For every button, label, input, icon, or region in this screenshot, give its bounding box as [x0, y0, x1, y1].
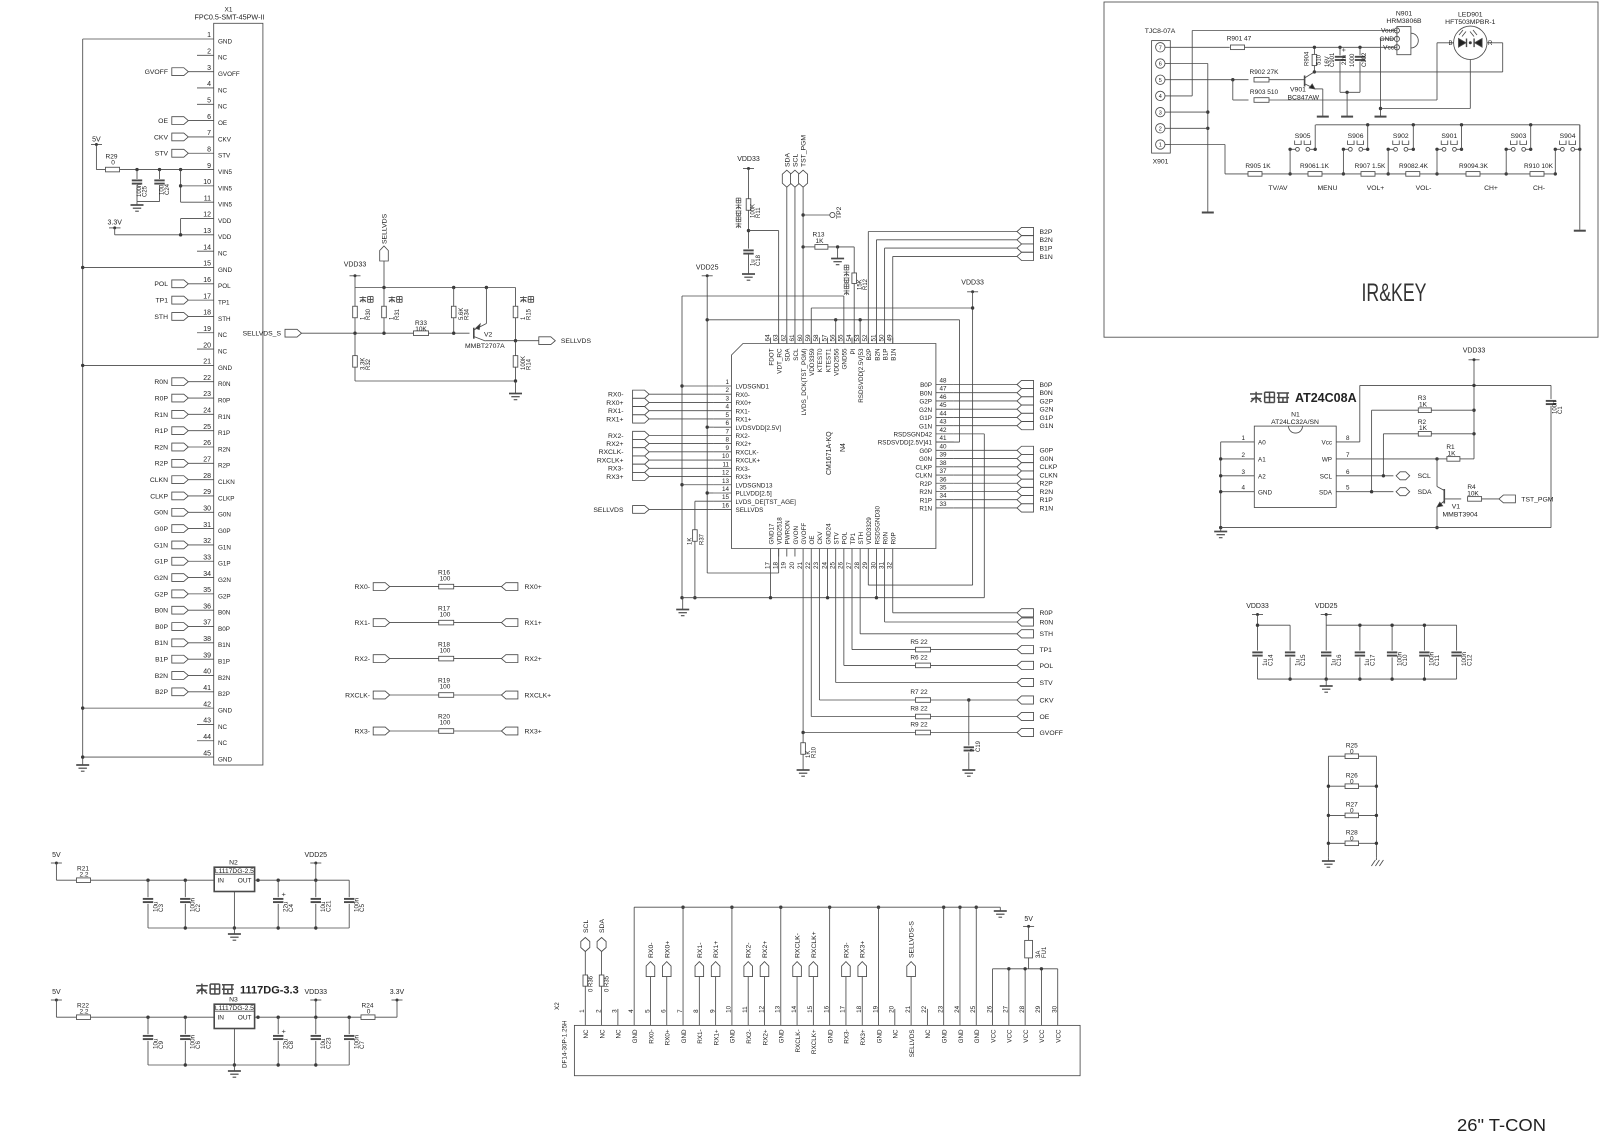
svg-text:R30: R30 — [366, 308, 372, 320]
svg-text:S902: S902 — [1393, 133, 1409, 140]
svg-text:22: 22 — [921, 1005, 928, 1013]
svg-text:1: 1 — [725, 379, 729, 386]
svg-text:0: 0 — [1350, 749, 1354, 756]
svg-text:19: 19 — [781, 562, 788, 570]
svg-text:SCL: SCL — [583, 920, 590, 933]
svg-text:GND: GND — [958, 1029, 965, 1043]
svg-text:42: 42 — [203, 701, 211, 708]
svg-text:55: 55 — [838, 334, 845, 342]
svg-text:37: 37 — [203, 620, 211, 627]
svg-text:VIN5: VIN5 — [218, 185, 232, 192]
svg-text:8: 8 — [1346, 435, 1350, 442]
svg-text:43: 43 — [940, 419, 948, 426]
svg-text:C7: C7 — [359, 1040, 366, 1049]
svg-text:X1: X1 — [225, 7, 233, 14]
svg-text:RX1-: RX1- — [736, 408, 750, 415]
svg-text:B0N: B0N — [920, 390, 933, 397]
svg-text:62: 62 — [781, 334, 788, 342]
svg-text:1K: 1K — [816, 238, 825, 245]
svg-text:13: 13 — [722, 478, 730, 485]
svg-text:CH-: CH- — [1533, 185, 1545, 192]
svg-text:S906: S906 — [1348, 133, 1364, 140]
svg-text:VCC: VCC — [1023, 1029, 1030, 1043]
svg-text:1K: 1K — [1448, 450, 1457, 457]
svg-text:0: 0 — [1350, 836, 1354, 843]
svg-text:CKV: CKV — [154, 134, 168, 141]
svg-text:0: 0 — [111, 160, 115, 167]
svg-text:60: 60 — [797, 334, 804, 342]
svg-text:5V: 5V — [52, 989, 61, 996]
svg-text:GND: GND — [730, 1029, 737, 1043]
svg-text:RX0+: RX0+ — [525, 584, 542, 591]
svg-text:100: 100 — [440, 647, 451, 654]
svg-text:38: 38 — [203, 636, 211, 643]
svg-text:RX3-: RX3- — [736, 466, 750, 473]
svg-text:11: 11 — [204, 195, 211, 202]
svg-text:C19: C19 — [976, 740, 982, 752]
svg-text:MMBT3904: MMBT3904 — [1443, 512, 1478, 519]
svg-text:49: 49 — [887, 334, 894, 342]
svg-text:RX1-: RX1- — [697, 943, 704, 959]
svg-text:44: 44 — [203, 734, 211, 741]
svg-text:PI: PI — [850, 348, 857, 354]
svg-text:C1: C1 — [1558, 406, 1564, 414]
svg-text:6: 6 — [1346, 469, 1350, 476]
svg-text:B1N: B1N — [1040, 254, 1053, 261]
svg-text:SCL: SCL — [792, 154, 799, 167]
svg-text:2: 2 — [595, 1009, 602, 1013]
svg-text:VCC: VCC — [1007, 1029, 1014, 1043]
svg-text:RSDSGND30: RSDSGND30 — [874, 506, 881, 545]
svg-text:R2P: R2P — [920, 481, 932, 488]
svg-text:GND: GND — [218, 708, 232, 715]
svg-text:C6: C6 — [195, 1040, 202, 1049]
svg-text:2: 2 — [207, 49, 211, 56]
svg-text:B2P: B2P — [155, 689, 168, 696]
svg-text:TP1: TP1 — [1040, 647, 1053, 654]
svg-text:20: 20 — [203, 342, 211, 349]
svg-text:R2P: R2P — [1040, 481, 1054, 488]
svg-text:GVOFF: GVOFF — [1040, 730, 1063, 737]
svg-text:LVDSGND13: LVDSGND13 — [736, 482, 773, 489]
svg-text:RSDSVDD[2.5V]41: RSDSVDD[2.5V]41 — [878, 440, 933, 447]
svg-text:B0N: B0N — [155, 608, 168, 615]
svg-text:42: 42 — [940, 427, 948, 434]
svg-text:R9094.3K: R9094.3K — [1459, 163, 1489, 170]
svg-text:VDD2518: VDD2518 — [776, 517, 783, 545]
svg-text:VCC: VCC — [990, 1029, 997, 1043]
svg-text:9: 9 — [725, 445, 729, 452]
svg-text:SELLVDS: SELLVDS — [561, 338, 592, 345]
svg-text:6: 6 — [1159, 62, 1162, 68]
svg-text:CLKP: CLKP — [1040, 464, 1058, 471]
svg-text:47: 47 — [940, 386, 948, 393]
svg-text:57: 57 — [821, 334, 828, 342]
svg-text:28: 28 — [1019, 1005, 1026, 1013]
svg-text:VDD33: VDD33 — [1246, 603, 1269, 610]
svg-text:RX3+: RX3+ — [860, 941, 867, 958]
svg-text:G1P: G1P — [154, 559, 168, 566]
svg-text:22: 22 — [805, 562, 812, 570]
svg-text:0: 0 — [1350, 779, 1354, 786]
svg-text:SDA: SDA — [784, 153, 791, 167]
svg-text:5: 5 — [1159, 78, 1162, 84]
svg-text:NC: NC — [583, 1029, 590, 1039]
svg-text:G2P: G2P — [154, 591, 168, 598]
svg-text:11: 11 — [742, 1006, 749, 1013]
svg-text:C14: C14 — [1267, 654, 1274, 666]
svg-text:RX3-: RX3- — [843, 943, 850, 959]
svg-text:B2P: B2P — [218, 691, 230, 698]
svg-text:R0N: R0N — [154, 379, 168, 386]
svg-text:N2: N2 — [229, 860, 238, 867]
svg-text:4: 4 — [1241, 485, 1245, 492]
svg-text:R6 22: R6 22 — [910, 655, 928, 662]
svg-text:R31: R31 — [395, 308, 401, 320]
svg-text:63: 63 — [772, 334, 779, 342]
svg-text:14: 14 — [722, 486, 730, 493]
svg-text:G0N: G0N — [919, 456, 932, 463]
svg-text:HFT503MPBR-1: HFT503MPBR-1 — [1445, 19, 1495, 26]
svg-text:R910 10K: R910 10K — [1524, 163, 1554, 170]
svg-text:12: 12 — [722, 470, 730, 477]
svg-text:5: 5 — [1346, 485, 1350, 492]
svg-text:27: 27 — [203, 457, 211, 464]
svg-text:24: 24 — [954, 1005, 961, 1013]
svg-text:R0P: R0P — [1040, 610, 1054, 617]
svg-text:12: 12 — [758, 1005, 765, 1013]
svg-text:NC: NC — [218, 251, 228, 258]
svg-text:29: 29 — [862, 562, 869, 570]
svg-text:16: 16 — [203, 277, 211, 284]
svg-text:RX1+: RX1+ — [713, 1029, 720, 1045]
svg-text:B: B — [1448, 41, 1452, 47]
svg-text:36: 36 — [940, 476, 948, 483]
svg-text:CM1671A-KQ: CM1671A-KQ — [826, 431, 833, 475]
svg-text:RX0-: RX0- — [608, 392, 624, 399]
svg-text:25: 25 — [203, 424, 211, 431]
svg-text:TST_PGM: TST_PGM — [1521, 496, 1553, 503]
svg-text:GND: GND — [218, 365, 232, 372]
svg-text:31: 31 — [878, 562, 885, 570]
svg-text:26: 26 — [203, 440, 211, 447]
svg-text:12: 12 — [203, 212, 211, 219]
svg-text:8: 8 — [725, 437, 729, 444]
svg-text:C17: C17 — [1370, 654, 1377, 666]
svg-text:34: 34 — [203, 571, 211, 578]
svg-text:NC: NC — [218, 55, 228, 62]
svg-text:R: R — [1488, 41, 1493, 47]
svg-text:GND: GND — [941, 1029, 948, 1043]
svg-text:Vcc: Vcc — [1322, 440, 1333, 447]
svg-text:43: 43 — [203, 718, 211, 725]
svg-text:5: 5 — [644, 1009, 651, 1013]
svg-text:B0P: B0P — [218, 626, 230, 633]
svg-text:G2P: G2P — [218, 593, 231, 600]
svg-text:41: 41 — [203, 685, 211, 692]
svg-text:RX2-: RX2- — [608, 433, 624, 440]
svg-text:VCC: VCC — [1039, 1029, 1046, 1043]
svg-text:G1N: G1N — [1040, 423, 1054, 430]
svg-text:RXCLK+: RXCLK+ — [597, 457, 624, 464]
svg-text:0: 0 — [1350, 808, 1354, 815]
svg-text:GVOFF: GVOFF — [801, 523, 808, 545]
svg-text:8: 8 — [207, 146, 211, 153]
svg-text:RX0+: RX0+ — [665, 1029, 672, 1045]
svg-text:CLKN: CLKN — [1040, 472, 1058, 479]
svg-text:21: 21 — [905, 1005, 912, 1013]
svg-text:19: 19 — [872, 1005, 879, 1013]
svg-text:GVOFF: GVOFF — [145, 69, 168, 76]
svg-text:7: 7 — [677, 1009, 684, 1013]
svg-text:17: 17 — [203, 293, 211, 300]
svg-text:58: 58 — [813, 334, 820, 342]
svg-text:28: 28 — [854, 562, 861, 570]
svg-text:16: 16 — [722, 502, 730, 509]
svg-text:+: + — [1341, 48, 1348, 52]
svg-text:G2N: G2N — [154, 575, 168, 582]
svg-text:VDD2556: VDD2556 — [834, 348, 841, 376]
svg-text:44: 44 — [940, 410, 948, 417]
svg-text:R9082.4K: R9082.4K — [1399, 163, 1429, 170]
svg-text:GND: GND — [218, 38, 232, 45]
svg-text:5: 5 — [725, 412, 729, 419]
svg-text:100: 100 — [440, 575, 451, 582]
svg-text:18: 18 — [856, 1005, 863, 1013]
svg-text:R904: R904 — [1305, 51, 1311, 66]
svg-text:RX1-: RX1- — [697, 1029, 704, 1043]
svg-text:C15: C15 — [1300, 654, 1307, 666]
svg-text:SELLVDS: SELLVDS — [593, 507, 624, 514]
svg-text:64: 64 — [764, 334, 771, 342]
svg-text:30: 30 — [203, 505, 211, 512]
svg-text:NC: NC — [925, 1029, 932, 1039]
svg-text:R2P: R2P — [218, 463, 230, 470]
svg-text:R15: R15 — [526, 308, 532, 320]
svg-text:LVDS_DE[TST_AGE]: LVDS_DE[TST_AGE] — [736, 499, 797, 506]
svg-text:GND: GND — [681, 1029, 688, 1043]
svg-text:G0P: G0P — [1040, 448, 1054, 455]
svg-text:SELLVDS_S: SELLVDS_S — [243, 331, 282, 338]
svg-text:C24: C24 — [165, 183, 171, 195]
svg-text:R1P: R1P — [218, 430, 230, 437]
svg-text:R0N: R0N — [218, 381, 231, 388]
svg-text:POL: POL — [1040, 663, 1054, 670]
svg-text:B0P: B0P — [1040, 382, 1053, 389]
svg-text:GND: GND — [779, 1029, 786, 1043]
svg-text:S901: S901 — [1441, 133, 1457, 140]
svg-text:VDD33: VDD33 — [344, 262, 367, 269]
svg-text:53: 53 — [854, 334, 861, 342]
svg-text:S904: S904 — [1560, 133, 1576, 140]
svg-text:2.2: 2.2 — [79, 1009, 88, 1016]
svg-text:VDD25: VDD25 — [696, 265, 719, 272]
svg-text:0 R35: 0 R35 — [605, 975, 611, 992]
svg-text:L1117DG-2.5: L1117DG-2.5 — [215, 868, 254, 875]
svg-text:7: 7 — [1159, 46, 1162, 52]
svg-text:RX1+: RX1+ — [736, 417, 752, 424]
svg-text:SELLVDS: SELLVDS — [382, 213, 389, 244]
svg-text:S903: S903 — [1511, 133, 1527, 140]
svg-text:RX2+: RX2+ — [606, 441, 623, 448]
svg-text:RSDSVDD[2.5V]53: RSDSVDD[2.5V]53 — [858, 348, 865, 403]
svg-text:RX1-: RX1- — [355, 620, 371, 627]
svg-text:NC: NC — [599, 1029, 606, 1039]
svg-text:VDD25: VDD25 — [1315, 603, 1338, 610]
svg-text:50: 50 — [878, 334, 885, 342]
svg-text:39: 39 — [940, 452, 948, 459]
svg-text:Vout: Vout — [1381, 28, 1394, 35]
svg-text:RX0+: RX0+ — [736, 400, 752, 407]
svg-text:VDD3359: VDD3359 — [809, 348, 816, 376]
svg-text:B0P: B0P — [155, 624, 168, 631]
svg-text:NC: NC — [893, 1029, 900, 1039]
svg-text:OE: OE — [158, 118, 168, 125]
svg-text:CKV: CKV — [218, 136, 232, 143]
svg-text:TP1: TP1 — [850, 532, 857, 544]
svg-text:6: 6 — [207, 114, 211, 121]
svg-text:TV/AV: TV/AV — [1268, 185, 1288, 192]
svg-text:RX1+: RX1+ — [606, 416, 623, 423]
svg-text:N901: N901 — [1396, 11, 1412, 18]
svg-text:510: 510 — [1317, 54, 1323, 65]
svg-text:30: 30 — [870, 562, 877, 570]
svg-text:C12: C12 — [1466, 654, 1473, 666]
svg-text:GND: GND — [827, 1029, 834, 1043]
svg-text:17: 17 — [840, 1005, 847, 1013]
svg-text:41: 41 — [940, 435, 948, 442]
svg-text:TJC8-07A: TJC8-07A — [1145, 28, 1176, 35]
svg-text:GVON: GVON — [793, 526, 800, 545]
svg-text:RXCLK+: RXCLK+ — [811, 1029, 818, 1054]
svg-text:SELLVDS: SELLVDS — [736, 507, 764, 514]
svg-text:VDD: VDD — [218, 218, 232, 225]
svg-text:SCL: SCL — [1418, 473, 1431, 480]
svg-text:OUT: OUT — [238, 1014, 252, 1021]
svg-text:NC: NC — [218, 348, 228, 355]
svg-text:RX3+: RX3+ — [860, 1029, 867, 1045]
svg-text:R1N: R1N — [1040, 505, 1054, 512]
svg-text:BC847AW: BC847AW — [1288, 95, 1320, 102]
svg-text:B2N: B2N — [155, 673, 168, 680]
svg-text:RXCLK-: RXCLK- — [345, 692, 370, 699]
svg-text:21: 21 — [203, 359, 211, 366]
svg-text:RX2+: RX2+ — [762, 941, 769, 958]
svg-text:STH: STH — [1040, 631, 1054, 638]
svg-text:CLKP: CLKP — [150, 493, 168, 500]
svg-text:5V: 5V — [52, 852, 61, 859]
svg-text:31: 31 — [203, 522, 211, 529]
svg-text:LVDSGND1: LVDSGND1 — [736, 384, 770, 391]
svg-text:STV: STV — [155, 151, 169, 158]
svg-text:G0P: G0P — [218, 528, 231, 535]
svg-text:NC: NC — [218, 724, 228, 731]
svg-text:R2N: R2N — [154, 444, 168, 451]
svg-text:G1P: G1P — [218, 561, 231, 568]
svg-text:100: 100 — [440, 684, 451, 691]
svg-text:RX0-: RX0- — [736, 392, 750, 399]
svg-text:KTEST0: KTEST0 — [817, 348, 824, 372]
svg-text:B2N: B2N — [874, 348, 881, 361]
svg-text:0: 0 — [367, 1009, 371, 1016]
svg-text:R10: R10 — [811, 746, 817, 758]
svg-text:29: 29 — [1035, 1005, 1042, 1013]
svg-text:4: 4 — [207, 81, 211, 88]
svg-text:32: 32 — [203, 538, 211, 545]
svg-text:33: 33 — [203, 554, 211, 561]
svg-text:AT24LC32A/SN: AT24LC32A/SN — [1271, 419, 1319, 426]
svg-text:CKV: CKV — [817, 531, 824, 545]
svg-text:27: 27 — [1003, 1005, 1010, 1013]
svg-text:C18: C18 — [756, 254, 762, 266]
svg-text:VDD3329: VDD3329 — [866, 517, 873, 545]
svg-text:TST_PGM: TST_PGM — [801, 135, 808, 167]
svg-text:FU1: FU1 — [1042, 946, 1048, 958]
svg-text:C21: C21 — [326, 900, 333, 912]
svg-text:15: 15 — [722, 494, 730, 501]
svg-text:RX2+: RX2+ — [736, 441, 752, 448]
svg-text:B2P: B2P — [866, 349, 873, 361]
svg-text:R902 27K: R902 27K — [1250, 69, 1280, 76]
svg-text:C11: C11 — [1434, 654, 1441, 666]
svg-text:RX0-: RX0- — [648, 943, 655, 959]
svg-text:RX1+: RX1+ — [713, 941, 720, 958]
svg-text:HRM3806B: HRM3806B — [1386, 18, 1422, 25]
svg-text:R905 1K: R905 1K — [1245, 163, 1271, 170]
svg-text:IN: IN — [218, 1014, 225, 1021]
svg-text:5V: 5V — [1024, 916, 1033, 923]
svg-text:PLLVDD[2.5]: PLLVDD[2.5] — [736, 491, 773, 498]
svg-text:18: 18 — [772, 562, 779, 570]
svg-text:C902: C902 — [1362, 52, 1368, 67]
svg-text:RX3-: RX3- — [355, 728, 371, 735]
svg-text:STH: STH — [858, 531, 865, 544]
svg-text:GVOFF: GVOFF — [218, 71, 240, 78]
svg-text:RX1+: RX1+ — [525, 620, 542, 627]
svg-text:G2N: G2N — [1040, 407, 1054, 414]
svg-text:R1P: R1P — [155, 428, 169, 435]
svg-text:STV: STV — [1040, 680, 1054, 687]
svg-text:10K: 10K — [1467, 490, 1479, 497]
svg-text:STH: STH — [154, 314, 168, 321]
svg-text:21: 21 — [797, 562, 804, 570]
svg-text:1: 1 — [1241, 435, 1245, 442]
svg-text:GND: GND — [1380, 36, 1395, 43]
svg-text:X2: X2 — [554, 1002, 561, 1010]
svg-text:23: 23 — [813, 562, 820, 570]
svg-text:RSDSGND42: RSDSGND42 — [894, 431, 933, 438]
svg-text:3.3V: 3.3V — [107, 220, 122, 227]
svg-text:100: 100 — [440, 720, 451, 727]
svg-text:C25: C25 — [143, 185, 149, 197]
svg-text:B1P: B1P — [218, 659, 230, 666]
svg-text:V2: V2 — [484, 332, 493, 339]
svg-text:X901: X901 — [1153, 159, 1169, 166]
svg-text:N3: N3 — [229, 997, 238, 1004]
svg-text:28: 28 — [203, 473, 211, 480]
svg-text:CLKP: CLKP — [916, 464, 932, 471]
svg-text:16V: 16V — [1325, 56, 1331, 67]
svg-text:13: 13 — [203, 228, 211, 235]
svg-text:STV: STV — [834, 531, 841, 544]
svg-text:G1P: G1P — [919, 415, 932, 422]
svg-text:26: 26 — [986, 1005, 993, 1013]
svg-text:LVDSVDD[2.5V]: LVDSVDD[2.5V] — [736, 425, 782, 432]
svg-text:PWRON: PWRON — [785, 520, 792, 545]
svg-text:RXCLK-: RXCLK- — [599, 449, 624, 456]
svg-text:19: 19 — [203, 326, 211, 333]
svg-text:STV: STV — [218, 153, 231, 160]
